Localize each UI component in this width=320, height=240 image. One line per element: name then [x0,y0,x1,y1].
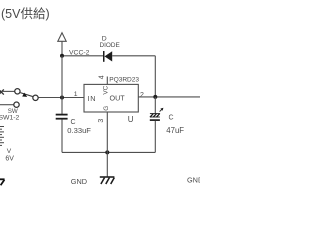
junction at x62 on IN wire [60,96,64,100]
svg-text:G: G [103,106,110,111]
diode D [103,51,112,62]
polarity + mark [160,108,164,112]
svg-text:1: 1 [74,91,78,98]
capacitor C 0.33uF plates [56,115,68,119]
svg-text:0.33uF: 0.33uF [67,126,91,135]
capacitor C 47uF lower plate [150,119,160,121]
connector X mark (left edge) [0,89,4,94]
wire cap to bottom bus [61,120,63,153]
svg-text:6V: 6V [5,155,14,162]
ground (hatched) [100,177,115,184]
svg-text:3: 3 [98,119,105,123]
svg-text:4: 4 [98,75,105,79]
switch throw contact (upper) [33,95,38,100]
wire GND pin 3 down to ground [106,112,108,177]
switch arm with arrowhead [20,93,33,97]
svg-text:(5V供給): (5V供給) [1,7,50,21]
svg-text:U: U [128,115,134,124]
wire left edge to switch pole [1,90,15,92]
junction on bottom bus [105,150,109,154]
junction at OUT/diode/cap node [153,95,157,99]
svg-text:GND: GND [187,176,200,185]
wire switch to IN pin [38,97,84,99]
capacitor C 47uF: wire from OUT junction down [154,97,156,113]
ground (bottom-left, cut at edge) [0,179,5,185]
svg-text:IN: IN [88,94,97,103]
svg-text:C: C [169,114,174,121]
battery V 6V (cut at left edge) [0,127,4,146]
wire diode anode to right corner [112,55,155,57]
wire right vertical down to OUT junction [154,56,156,97]
svg-text:GND: GND [71,177,87,186]
wire OUT pin to right edge [138,96,200,98]
svg-text:PQ3RD23: PQ3RD23 [109,76,139,83]
VCC-2 supply arrow [58,33,66,56]
svg-text:SW1-2: SW1-2 [0,114,19,121]
svg-text:VC: VC [102,85,109,94]
svg-text:DIODE: DIODE [100,42,120,49]
svg-text:V: V [7,148,12,155]
wire VCC node down to IN wire [61,56,63,98]
svg-text:C: C [71,119,76,126]
wire lower throw stub [0,104,14,106]
wire 47uF to bottom bus [154,121,156,153]
regulator U PQ3RD23 body [84,84,138,112]
wire bottom bus [62,151,155,153]
switch throw contact (lower) [14,102,19,107]
capacitor C 47uF hatched plate [150,113,160,117]
capacitor C 0.33uF: input wire down [61,98,63,114]
svg-text:OUT: OUT [110,94,126,103]
wire VCC-2 to diode cathode [62,55,103,57]
junction at VCC arrow [60,54,64,58]
pin 4 stub [106,77,108,85]
svg-text:2: 2 [140,92,144,99]
switch SW1-2 pole contact [15,89,20,94]
svg-text:47uF: 47uF [166,126,184,135]
